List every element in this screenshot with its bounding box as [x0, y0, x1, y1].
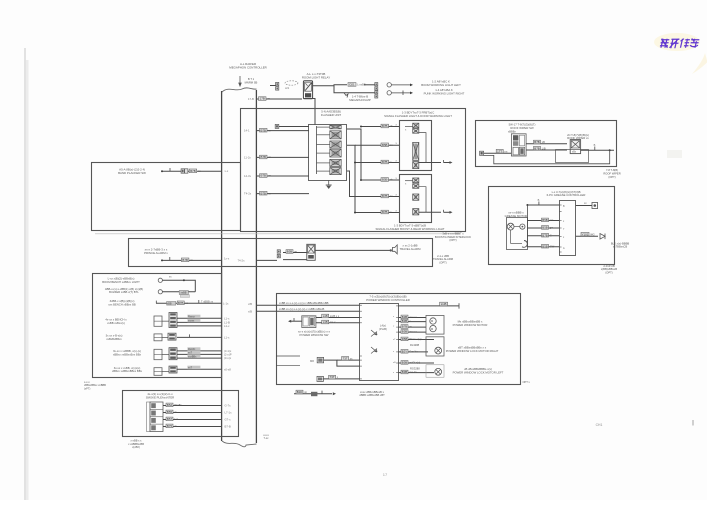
connector row1	[375, 83, 378, 90]
label pw bottom	[359, 390, 385, 397]
svg-text:6-PC GREASE CONTROLLER: 6-PC GREASE CONTROLLER	[547, 193, 586, 197]
lamp row2 circle	[158, 290, 162, 294]
connector group 3 left	[154, 349, 162, 359]
title 6-PC GREASE CONTROLLER	[547, 190, 586, 197]
wire group 3 link	[162, 354, 169, 356]
svg-text:L/B: L/B	[542, 146, 546, 150]
svg-text:L-1x: L-1x	[223, 301, 229, 305]
svg-text:D5B: D5B	[402, 337, 408, 341]
box power window controller	[277, 294, 521, 385]
pin warn 1	[396, 141, 398, 145]
wire B feed flasher	[279, 126, 309, 128]
svg-text:xxx Yx: xxx Yx	[409, 370, 417, 374]
label CH1	[596, 423, 603, 427]
svg-text:CH1: CH1	[596, 423, 603, 427]
warn out arrow 1	[444, 161, 453, 164]
svg-text:RG/xx x(x): RG/xx x(x)	[409, 337, 421, 341]
wire pw comp2 out	[323, 378, 359, 380]
wire warn row	[355, 162, 399, 164]
label band	[189, 169, 201, 173]
pin smoke 3	[225, 425, 231, 429]
group 1 pin 1	[224, 320, 230, 324]
speaker	[390, 245, 398, 254]
wire prince right	[257, 259, 278, 261]
pin warn 3	[396, 176, 398, 180]
svg-text:T4-2x: T4-2x	[244, 192, 252, 196]
title smoke	[146, 392, 174, 399]
svg-text:74-2x: 74-2x	[238, 259, 246, 263]
svg-text:T3T: T3T	[343, 356, 348, 360]
pin warn 0	[396, 122, 398, 126]
label pw run1	[279, 301, 329, 305]
label smoke 2	[166, 417, 179, 421]
warn out wire	[419, 162, 441, 164]
controller rail right wire	[255, 90, 257, 443]
wire lamp2 arrow	[402, 91, 404, 96]
svg-text:G-7x: G-7x	[225, 404, 232, 408]
label BOOST LOWER INTERLOCK	[435, 232, 471, 243]
connector group 1 mid	[169, 313, 177, 328]
pin 14-3x	[244, 174, 252, 178]
label smoke 0	[166, 403, 183, 407]
wire group 2 link	[162, 336, 168, 338]
flasher cell 3	[330, 141, 341, 148]
label group 3	[113, 349, 142, 356]
svg-text:L1-x: L1-x	[224, 324, 230, 328]
label PW LOCK MOTOR LEFT	[453, 367, 504, 374]
tick grease B	[538, 198, 540, 205]
lamp L2	[387, 91, 391, 95]
box signal flasher system	[241, 109, 466, 232]
svg-text:w: w	[390, 211, 392, 214]
svg-text:OPT x: OPT x	[523, 380, 531, 384]
svg-text:xxBxBxBBxx: xxBxBxBBxx	[106, 337, 122, 341]
label 14-3x	[260, 174, 272, 178]
label warn 0	[381, 124, 393, 128]
door warning box 2	[400, 175, 432, 223]
label group 2	[106, 333, 123, 340]
svg-text:(3-x)x: (3-x)x	[224, 356, 232, 360]
group 3 label 2	[187, 355, 200, 359]
junction row1	[183, 279, 185, 281]
warn cell 1-3	[413, 142, 419, 160]
label boom bench light	[102, 276, 140, 283]
warn inner wires	[405, 181, 426, 213]
wire relay output right	[312, 85, 347, 86]
svg-text:B7B: B7B	[261, 155, 267, 159]
group 3 label 1	[187, 351, 200, 355]
wire group 1 link	[162, 320, 169, 322]
svg-text:x-x: x-x	[225, 169, 229, 173]
pw IC	[360, 304, 399, 381]
svg-text:RG/Bx: RG/Bx	[174, 403, 182, 407]
svg-text:(OPT): (OPT)	[605, 270, 612, 274]
pin 11-2x	[244, 155, 251, 159]
svg-text:17: 17	[383, 472, 388, 477]
svg-text:xxBB xx-x-x-(x)-x-(x)-x xBB: xxBB xx-x-x-(x)-x-(x)-x xBBxxBxxBBxxBB	[279, 301, 329, 305]
label BLK antenna	[611, 241, 630, 248]
connector band pair	[181, 169, 188, 173]
pin T4-2x	[244, 192, 252, 196]
wire row3	[156, 302, 222, 304]
svg-text:B5B: B5B	[542, 218, 548, 222]
label rails bottom	[263, 434, 269, 440]
warn out arrow 2	[444, 211, 453, 214]
svg-text:B5B: B5B	[542, 244, 548, 248]
grease out square	[592, 203, 598, 209]
svg-text:BUZZER xxBB x(T) BTL: BUZZER xxBB x(T) BTL	[109, 290, 139, 294]
svg-text:14-1: 14-1	[244, 129, 250, 133]
label prince2	[286, 250, 298, 254]
label pw sw2	[322, 320, 336, 324]
wire wiper out1	[526, 143, 567, 145]
wire dist v3	[347, 171, 379, 197]
pw motor3	[426, 365, 444, 377]
title PRINCE ALARM	[144, 248, 168, 256]
label xx grease	[584, 202, 587, 205]
relay K1 room light relay	[303, 81, 312, 99]
smoke conn	[147, 402, 164, 432]
svg-text:RL3288: RL3288	[410, 343, 420, 347]
wire group 4 row 0	[177, 368, 222, 370]
pin warn 5	[396, 208, 398, 212]
svg-text:x21: x21	[285, 86, 290, 90]
title ROOF WIPER SW	[509, 122, 536, 129]
pw switch	[302, 316, 316, 328]
title POWER WINDOW CONTROLLER	[366, 295, 410, 302]
horn box	[307, 244, 315, 260]
pin smoke 0	[225, 404, 232, 408]
label TRAVEL ALARM	[400, 244, 421, 251]
flasher cell stubs	[317, 127, 330, 171]
label warn 3	[381, 178, 393, 182]
wire group 1 row 1	[177, 321, 222, 323]
svg-text:POWER WINDOW CONTROLLER: POWER WINDOW CONTROLLER	[366, 298, 410, 302]
label GREASE MOTOR	[505, 211, 528, 218]
tick group2	[189, 334, 191, 337]
pw sw arrowhead	[288, 318, 294, 323]
tick band	[169, 168, 171, 171]
svg-text:xxBB xx-(x)-x-x-(x)-(x)-x x: xxBB xx-(x)-x-x-(x)-(x)-x xxBB xxBxxB	[279, 307, 324, 311]
label grease 1	[542, 226, 554, 230]
label bench brake	[108, 299, 136, 306]
connector Bf	[275, 124, 279, 128]
wire dist v1	[347, 129, 361, 180]
svg-text:(OPT): (OPT)	[439, 260, 446, 264]
wire rail to flasher	[257, 130, 310, 132]
label B T1	[245, 77, 258, 84]
tick row1	[169, 276, 172, 279]
pin smoke 1	[225, 411, 233, 415]
svg-text:MNRM SB: MNRM SB	[245, 80, 258, 84]
label LxB	[440, 302, 448, 306]
svg-text:xBBB xxBBxxBB xBT: xBBB xxBBxxBB xBT	[359, 393, 385, 397]
label warn 5	[381, 210, 392, 214]
label 11-2x	[260, 155, 272, 159]
wire motor link	[514, 226, 520, 228]
group 3 label 0	[187, 347, 200, 351]
ground flasher unit	[326, 180, 332, 189]
svg-text:xxxxx: xxxxx	[188, 320, 195, 323]
svg-text:MEGAPHON CONTROLLER: MEGAPHON CONTROLLER	[229, 66, 266, 70]
wiper sw block	[511, 134, 526, 156]
svg-text:xxx BENCH xBBxx BB: xxx BENCH xBBxx BB	[108, 303, 136, 307]
svg-text:um x x: um x x	[409, 331, 417, 334]
antenna triangle	[600, 234, 605, 240]
flasher cell 4	[330, 149, 341, 157]
grease condenser	[518, 241, 527, 248]
svg-text:xBBBx: xBBBx	[508, 130, 516, 134]
warn out tick	[443, 160, 445, 163]
row3 arr	[199, 300, 214, 304]
wire warn row	[355, 212, 399, 214]
wire pw sw out1	[316, 317, 360, 319]
svg-text:B5B: B5B	[287, 250, 293, 254]
svg-text:BAND PLACKER SW: BAND PLACKER SW	[118, 171, 146, 175]
svg-text:B7B: B7B	[382, 210, 388, 214]
svg-text:B7B: B7B	[261, 191, 267, 195]
label smoke 1	[166, 410, 177, 414]
label wiper o2	[534, 146, 546, 150]
pw top out tick	[458, 303, 460, 308]
svg-text:B3B: B3B	[402, 319, 408, 323]
junction 5	[354, 212, 356, 214]
wiper motor	[570, 140, 580, 154]
arrow into controller	[239, 76, 241, 86]
wire relay to lamp row1	[364, 84, 375, 86]
grease IC	[560, 201, 576, 256]
svg-text:FLASHER UNIT: FLASHER UNIT	[321, 113, 341, 117]
svg-text:xxB: xxB	[323, 320, 328, 324]
warn inner wires	[405, 127, 426, 163]
warn cell 1-2	[413, 129, 419, 134]
title SIGNAL FLASHER BOOST	[375, 223, 444, 230]
label warn 2	[381, 160, 392, 164]
label 1TT	[496, 149, 508, 153]
label D21	[348, 83, 366, 87]
svg-text:17-B: 17-B	[248, 97, 254, 101]
svg-text:BOOM WORKING LIGHT LEFT: BOOM WORKING LIGHT LEFT	[421, 83, 461, 87]
svg-text:xxT: xxT	[188, 352, 193, 355]
wire grease out right	[576, 235, 598, 237]
svg-text:B: B	[594, 143, 596, 147]
svg-text:POWER WINDOW LOCK MOTOR LEFT: POWER WINDOW LOCK MOTOR LEFT	[453, 371, 504, 375]
pw bottom arrow	[333, 392, 336, 395]
pw tr2	[371, 347, 377, 354]
wire pw out row	[398, 339, 434, 341]
wire pw out row	[398, 326, 426, 328]
svg-text:POWER WINDOW LOCK MOTOR RIGHT: POWER WINDOW LOCK MOTOR RIGHT	[446, 349, 499, 353]
junction 2	[354, 162, 356, 164]
svg-text:B7B: B7B	[382, 124, 388, 128]
svg-text:B57: B57	[167, 417, 173, 421]
label smoke 3	[166, 424, 177, 428]
wire warn row	[379, 196, 399, 198]
svg-text:D21: D21	[349, 83, 355, 87]
wire group 3 row 1	[177, 353, 222, 355]
grease motor m2	[520, 224, 525, 229]
warn cell 2-1	[413, 178, 419, 183]
label ROOM LIGHT RELAY	[302, 72, 330, 80]
svg-text:(OPT): (OPT)	[449, 238, 456, 242]
svg-text:T xBBB xx: T xBBB xx	[201, 300, 214, 304]
relay coil connector	[276, 82, 279, 90]
pw IC pin ticks	[360, 305, 399, 379]
pw MR	[310, 357, 324, 363]
pw motor1	[426, 316, 444, 335]
wire group 1 row 2	[177, 325, 222, 327]
svg-text:B: B	[538, 198, 540, 202]
connector prince pair	[277, 250, 280, 258]
label T3T a	[342, 356, 353, 360]
label pw row 1	[401, 319, 411, 323]
label B1D	[296, 390, 308, 394]
wire band placker	[162, 170, 222, 172]
label pw row 3	[401, 330, 418, 334]
pin warn 4	[396, 192, 398, 196]
wire warn row	[355, 144, 399, 146]
group 1 pin 2	[224, 324, 230, 328]
label antenna ground	[84, 381, 106, 390]
connector group 4 left	[154, 368, 162, 376]
lamp L1	[387, 83, 391, 87]
label pw row 2	[401, 325, 412, 329]
box roof wiper sw	[476, 121, 617, 167]
wire horn to speaker	[315, 249, 390, 251]
label group 4	[112, 366, 143, 373]
wire pw out row	[398, 331, 426, 333]
svg-text:G7-x: G7-x	[225, 418, 232, 422]
title FLASHER UNIT	[321, 110, 341, 117]
group 1 pin 0	[224, 316, 230, 320]
wire smoke row	[163, 412, 222, 414]
connector row2	[375, 91, 378, 98]
connector group 3 mid	[169, 348, 177, 360]
wire branch row2	[334, 86, 375, 93]
svg-text:B7B: B7B	[182, 258, 188, 262]
warn out tick	[443, 210, 445, 213]
svg-text:um: um	[550, 219, 554, 222]
svg-text:x/B: x/B	[248, 302, 252, 306]
junction prince	[161, 259, 163, 261]
svg-text:TRAVEL ALARM: TRAVEL ALARM	[400, 247, 421, 251]
page number	[383, 472, 388, 477]
group 4 label 0	[187, 366, 200, 370]
warn cell 1-4	[413, 162, 419, 169]
box boom bench	[93, 274, 222, 378]
svg-text:B7B: B7B	[542, 233, 548, 237]
svg-text:POWER WINDOW SW: POWER WINDOW SW	[300, 333, 329, 337]
warn cell 2-4	[413, 209, 419, 215]
svg-text:xBBxx xxBBxxBBxx BBx: xBBxx xxBBxxBBxx BBx	[112, 369, 143, 373]
svg-text:x/B: x/B	[248, 309, 252, 313]
svg-text:xxYY x(x): xxYY x(x)	[409, 361, 420, 365]
wire group 2 row 0	[177, 336, 222, 338]
wire grease out top	[576, 205, 592, 207]
svg-text:xxT: xxT	[188, 367, 193, 370]
label warn 4	[381, 194, 393, 198]
lamp row1 circle	[158, 278, 162, 282]
wire pw bottom row	[294, 393, 332, 395]
label pw row 0	[401, 315, 418, 319]
wire pw left feed	[276, 365, 300, 367]
svg-text:B3B: B3B	[402, 370, 408, 374]
pin smoke 2	[225, 418, 232, 422]
wire row2	[162, 291, 195, 293]
wire grease motor rows	[511, 205, 528, 247]
wire grease row	[527, 235, 559, 237]
box smoke	[123, 391, 239, 437]
label BOOM WORKING LIGHT LEFT	[421, 80, 461, 87]
wire rail to flasher	[257, 175, 310, 177]
svg-text:L/xB x x: L/xB x x	[330, 314, 340, 318]
svg-text:xBB: xBB	[167, 303, 172, 306]
svg-text:G: G	[550, 233, 552, 237]
warn out wire	[419, 211, 441, 213]
svg-text:Lxx: Lxx	[174, 417, 179, 421]
wire pw out row	[398, 321, 426, 323]
wire smoke row	[163, 419, 222, 421]
svg-text:xxBB: xxBB	[181, 292, 187, 295]
door warning box 1	[400, 121, 432, 171]
wire row1	[162, 280, 195, 292]
svg-text:B55: B55	[167, 410, 173, 414]
svg-text:B7B: B7B	[178, 301, 184, 305]
wire pw out row	[398, 317, 426, 319]
svg-text:SMOKE PLEAxxNTER: SMOKE PLEAxxNTER	[146, 395, 174, 399]
wire pw sw out2	[316, 322, 360, 324]
wire pw top out	[398, 305, 459, 307]
wire pw sw left	[289, 320, 302, 322]
svg-text:1x-x: 1x-x	[224, 257, 230, 261]
wire pw feed 2	[257, 310, 360, 312]
group 3 pin 1	[224, 352, 232, 356]
pin row3	[223, 301, 229, 305]
title POWER WINDOW SW	[298, 329, 331, 336]
label ROOF WIPER MOT	[567, 133, 589, 140]
svg-text:Rxxxx: Rxxxx	[188, 316, 196, 319]
svg-text:(OPT): (OPT)	[608, 175, 615, 179]
arrow row1	[391, 84, 413, 87]
roof wiper inner box	[556, 150, 589, 163]
svg-text:B7B: B7B	[534, 146, 540, 150]
svg-text:B5B: B5B	[402, 330, 408, 334]
svg-text:Y101: Y101	[582, 232, 589, 236]
svg-text:B7B: B7B	[190, 169, 196, 173]
wire wiper return	[484, 150, 610, 164]
svg-text:x(xBX): x(xBX)	[132, 445, 140, 449]
label RL3288	[410, 343, 420, 347]
label group 1	[105, 318, 127, 325]
controller break bottom	[222, 441, 257, 447]
connector group 4 mid	[169, 366, 177, 373]
wire pw out row	[398, 372, 434, 374]
warn cell 1-1	[413, 123, 419, 128]
svg-text:B7B: B7B	[402, 325, 408, 329]
svg-text:x0-x8: x0-x8	[224, 367, 231, 371]
label warn 1	[381, 143, 393, 147]
svg-text:11-2x: 11-2x	[244, 155, 251, 159]
box grease controller	[489, 187, 615, 265]
label 17B	[259, 97, 271, 101]
svg-text:gw: gw	[550, 227, 553, 230]
wire group 3 row 0	[177, 350, 222, 352]
wire pw left feed	[276, 355, 300, 357]
label wiper o1	[534, 140, 546, 144]
pw motor2	[426, 337, 444, 356]
label grease 2	[542, 233, 552, 237]
flasher cell 5	[330, 159, 341, 166]
